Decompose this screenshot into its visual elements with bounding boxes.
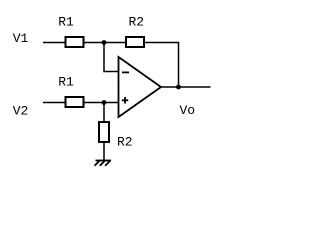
svg-text:V2: V2 [13, 103, 29, 118]
svg-text:V1: V1 [13, 31, 29, 46]
svg-text:R1: R1 [58, 15, 74, 30]
svg-text:R2: R2 [117, 134, 133, 149]
svg-text:Vo: Vo [179, 103, 195, 118]
svg-text:R1: R1 [58, 75, 74, 90]
svg-text:R2: R2 [128, 15, 144, 30]
